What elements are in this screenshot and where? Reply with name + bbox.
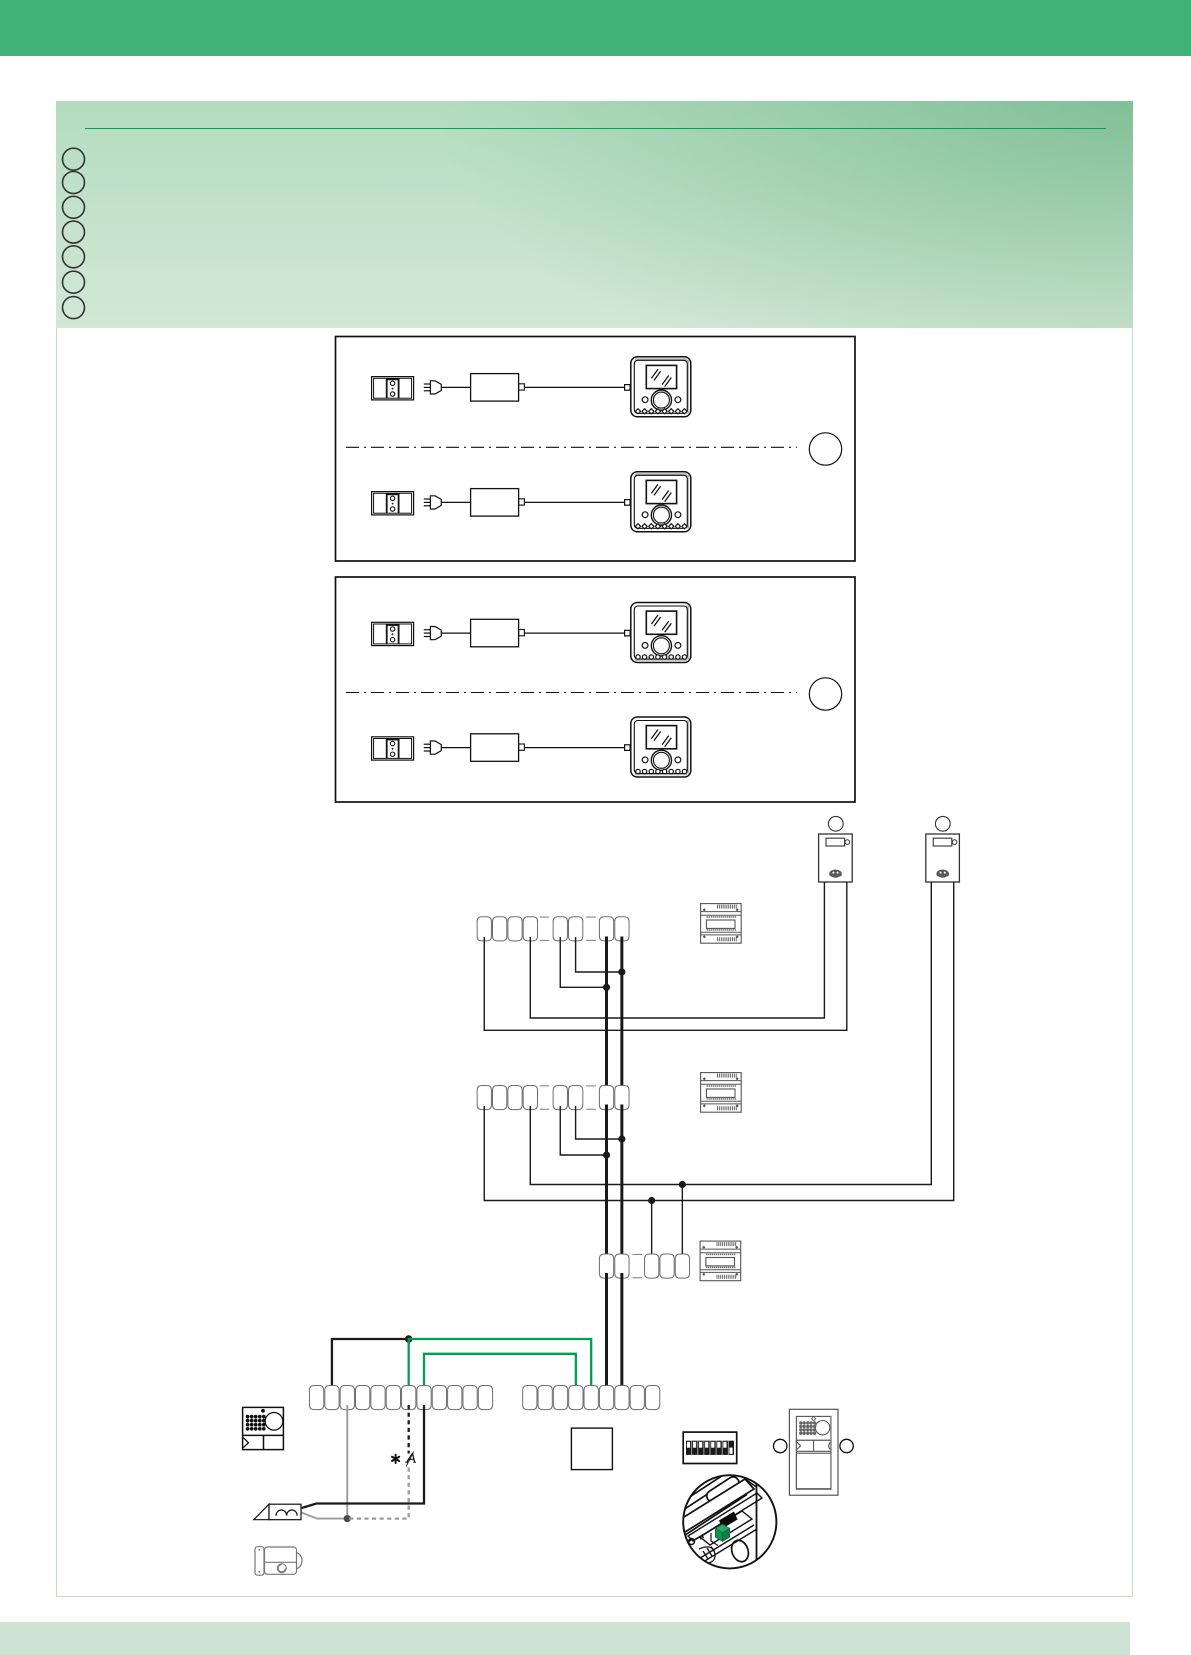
wire B2 floor2 to right bus (576, 937, 622, 972)
switcher module SW3 (700, 1241, 741, 1281)
keypad dots (246, 1415, 266, 1431)
callout circle interphone 2 (935, 816, 950, 831)
terminal strip floor 1 group C (599, 1086, 629, 1110)
mains plug (424, 741, 442, 754)
wire power supply to monitor (525, 747, 625, 749)
monitor (631, 472, 691, 532)
mains plug (424, 381, 442, 394)
strip continuation dashes (586, 1085, 596, 1087)
wire power supply to monitor (525, 632, 625, 634)
title rule (85, 128, 1106, 129)
power supply unit (471, 734, 525, 762)
power supply unit (471, 619, 525, 647)
callout circle interphone 1 (828, 816, 843, 831)
terminal strip floor 2 group C (599, 917, 629, 941)
wire drop to ground strip 2 (681, 1185, 683, 1259)
terminal strip floor 1 group B (553, 1086, 583, 1110)
junction on right bus floor2 (618, 968, 625, 975)
monitor (631, 717, 691, 777)
monitor (631, 603, 691, 663)
monitor connector (625, 630, 631, 636)
socket outlet 230V (372, 377, 414, 400)
magnified jumper detail (656, 1464, 778, 1570)
strip continuation dashes (633, 1253, 643, 1255)
terminal strip floor 1 group A (477, 1086, 537, 1110)
junction black/green (405, 1335, 413, 1343)
black wire to lock release (302, 1405, 425, 1508)
top green header bar (0, 0, 1191, 56)
strip continuation dashes (540, 916, 549, 918)
socket outlet 230V (372, 492, 414, 515)
lock release striker (254, 1504, 301, 1520)
floor divider dash-dot line 2 (346, 692, 797, 694)
terminal strip entrance panel terminals B (523, 1386, 660, 1410)
monitor connector (625, 385, 631, 391)
socket outlet 230V (372, 737, 414, 760)
step circles column (63, 148, 85, 318)
mains plug (424, 496, 442, 509)
switch contact slash (406, 1452, 414, 1467)
junction drop to ground-floor strip right (679, 1181, 686, 1188)
terminal strip floor 2 group A (477, 917, 537, 941)
wire power supply to monitor (525, 386, 625, 388)
electric lock (255, 1547, 302, 1576)
green wire lower loop (424, 1354, 576, 1390)
wire B1 floor1 to left bus (560, 1106, 606, 1155)
panel side circle right (840, 1439, 853, 1452)
terminal strip riser entry (599, 1254, 629, 1278)
external entrance unit (243, 1407, 284, 1449)
terminal strip floor 2 group B (553, 917, 583, 941)
switcher module SW1 (701, 904, 742, 944)
riser bus right lower segment (620, 1273, 623, 1390)
wire plug to power supply (441, 632, 470, 634)
riser bus right upper segment (620, 937, 623, 1091)
gray wire lock release (302, 1405, 348, 1519)
junction on right bus floor1 (618, 1135, 625, 1142)
power supply unit (471, 489, 525, 516)
entrance panel (789, 1409, 838, 1495)
riser bus right middle segment (620, 1105, 623, 1259)
wire A1 floor2 down (484, 882, 847, 1030)
terminal strip riser entry B (645, 1254, 690, 1278)
wire black L- to power box (332, 1339, 409, 1390)
panel keypad dots (799, 1421, 816, 1435)
distributor box (571, 1428, 612, 1470)
gray junction (344, 1515, 351, 1522)
monitor (631, 357, 691, 417)
wire A1 floor1 down (484, 882, 953, 1201)
wire plug to power supply (441, 386, 470, 388)
interphone 2 (926, 834, 960, 882)
strip continuation dashes (586, 916, 596, 918)
wire drop to ground strip 1 (651, 1201, 653, 1259)
mains plug (424, 627, 442, 640)
wire B2 floor1 to right bus (576, 1106, 622, 1139)
junction drop to ground-floor strip left (648, 1197, 655, 1204)
wire power supply to monitor (525, 501, 625, 503)
riser bus left middle segment (605, 1105, 608, 1259)
wire A4 floor1 down (530, 882, 931, 1185)
callout circle 2 (809, 678, 841, 710)
green wire upper loop (409, 1339, 591, 1390)
footer bar (0, 1622, 1130, 1655)
black dashed wire (switch input) (408, 1405, 410, 1454)
wire A4 floor2 down (530, 882, 824, 1018)
socket outlet 230V (372, 622, 414, 645)
interphone 1 (819, 834, 853, 882)
power supply unit (471, 374, 525, 402)
gray dashed wire to junction (347, 1468, 408, 1519)
box: local feed monitors kit 2 (336, 577, 856, 802)
callout circle 1 (809, 433, 841, 465)
floor divider dash-dot line (346, 446, 797, 448)
monitor connector (625, 500, 631, 506)
label asterisk (392, 1455, 399, 1463)
label A (405, 1454, 416, 1463)
monitor connector (625, 745, 631, 751)
riser bus left upper segment (605, 937, 608, 1091)
wire plug to power supply (441, 747, 470, 749)
panel side circle left (774, 1439, 787, 1452)
DIP switch block (683, 1432, 737, 1463)
wire B1 floor2 to left bus (560, 937, 606, 987)
junction on left bus floor1 (603, 1151, 610, 1158)
green gradient title panel (56, 101, 1133, 328)
strip continuation dashes (540, 1085, 549, 1087)
wire plug to power supply (441, 501, 470, 503)
box: local feed monitors kit (336, 337, 856, 562)
switcher module SW2 (701, 1073, 742, 1113)
terminal strip entrance panel terminals (309, 1386, 492, 1410)
riser bus left lower segment (605, 1273, 608, 1390)
junction on left bus floor2 (603, 984, 610, 991)
